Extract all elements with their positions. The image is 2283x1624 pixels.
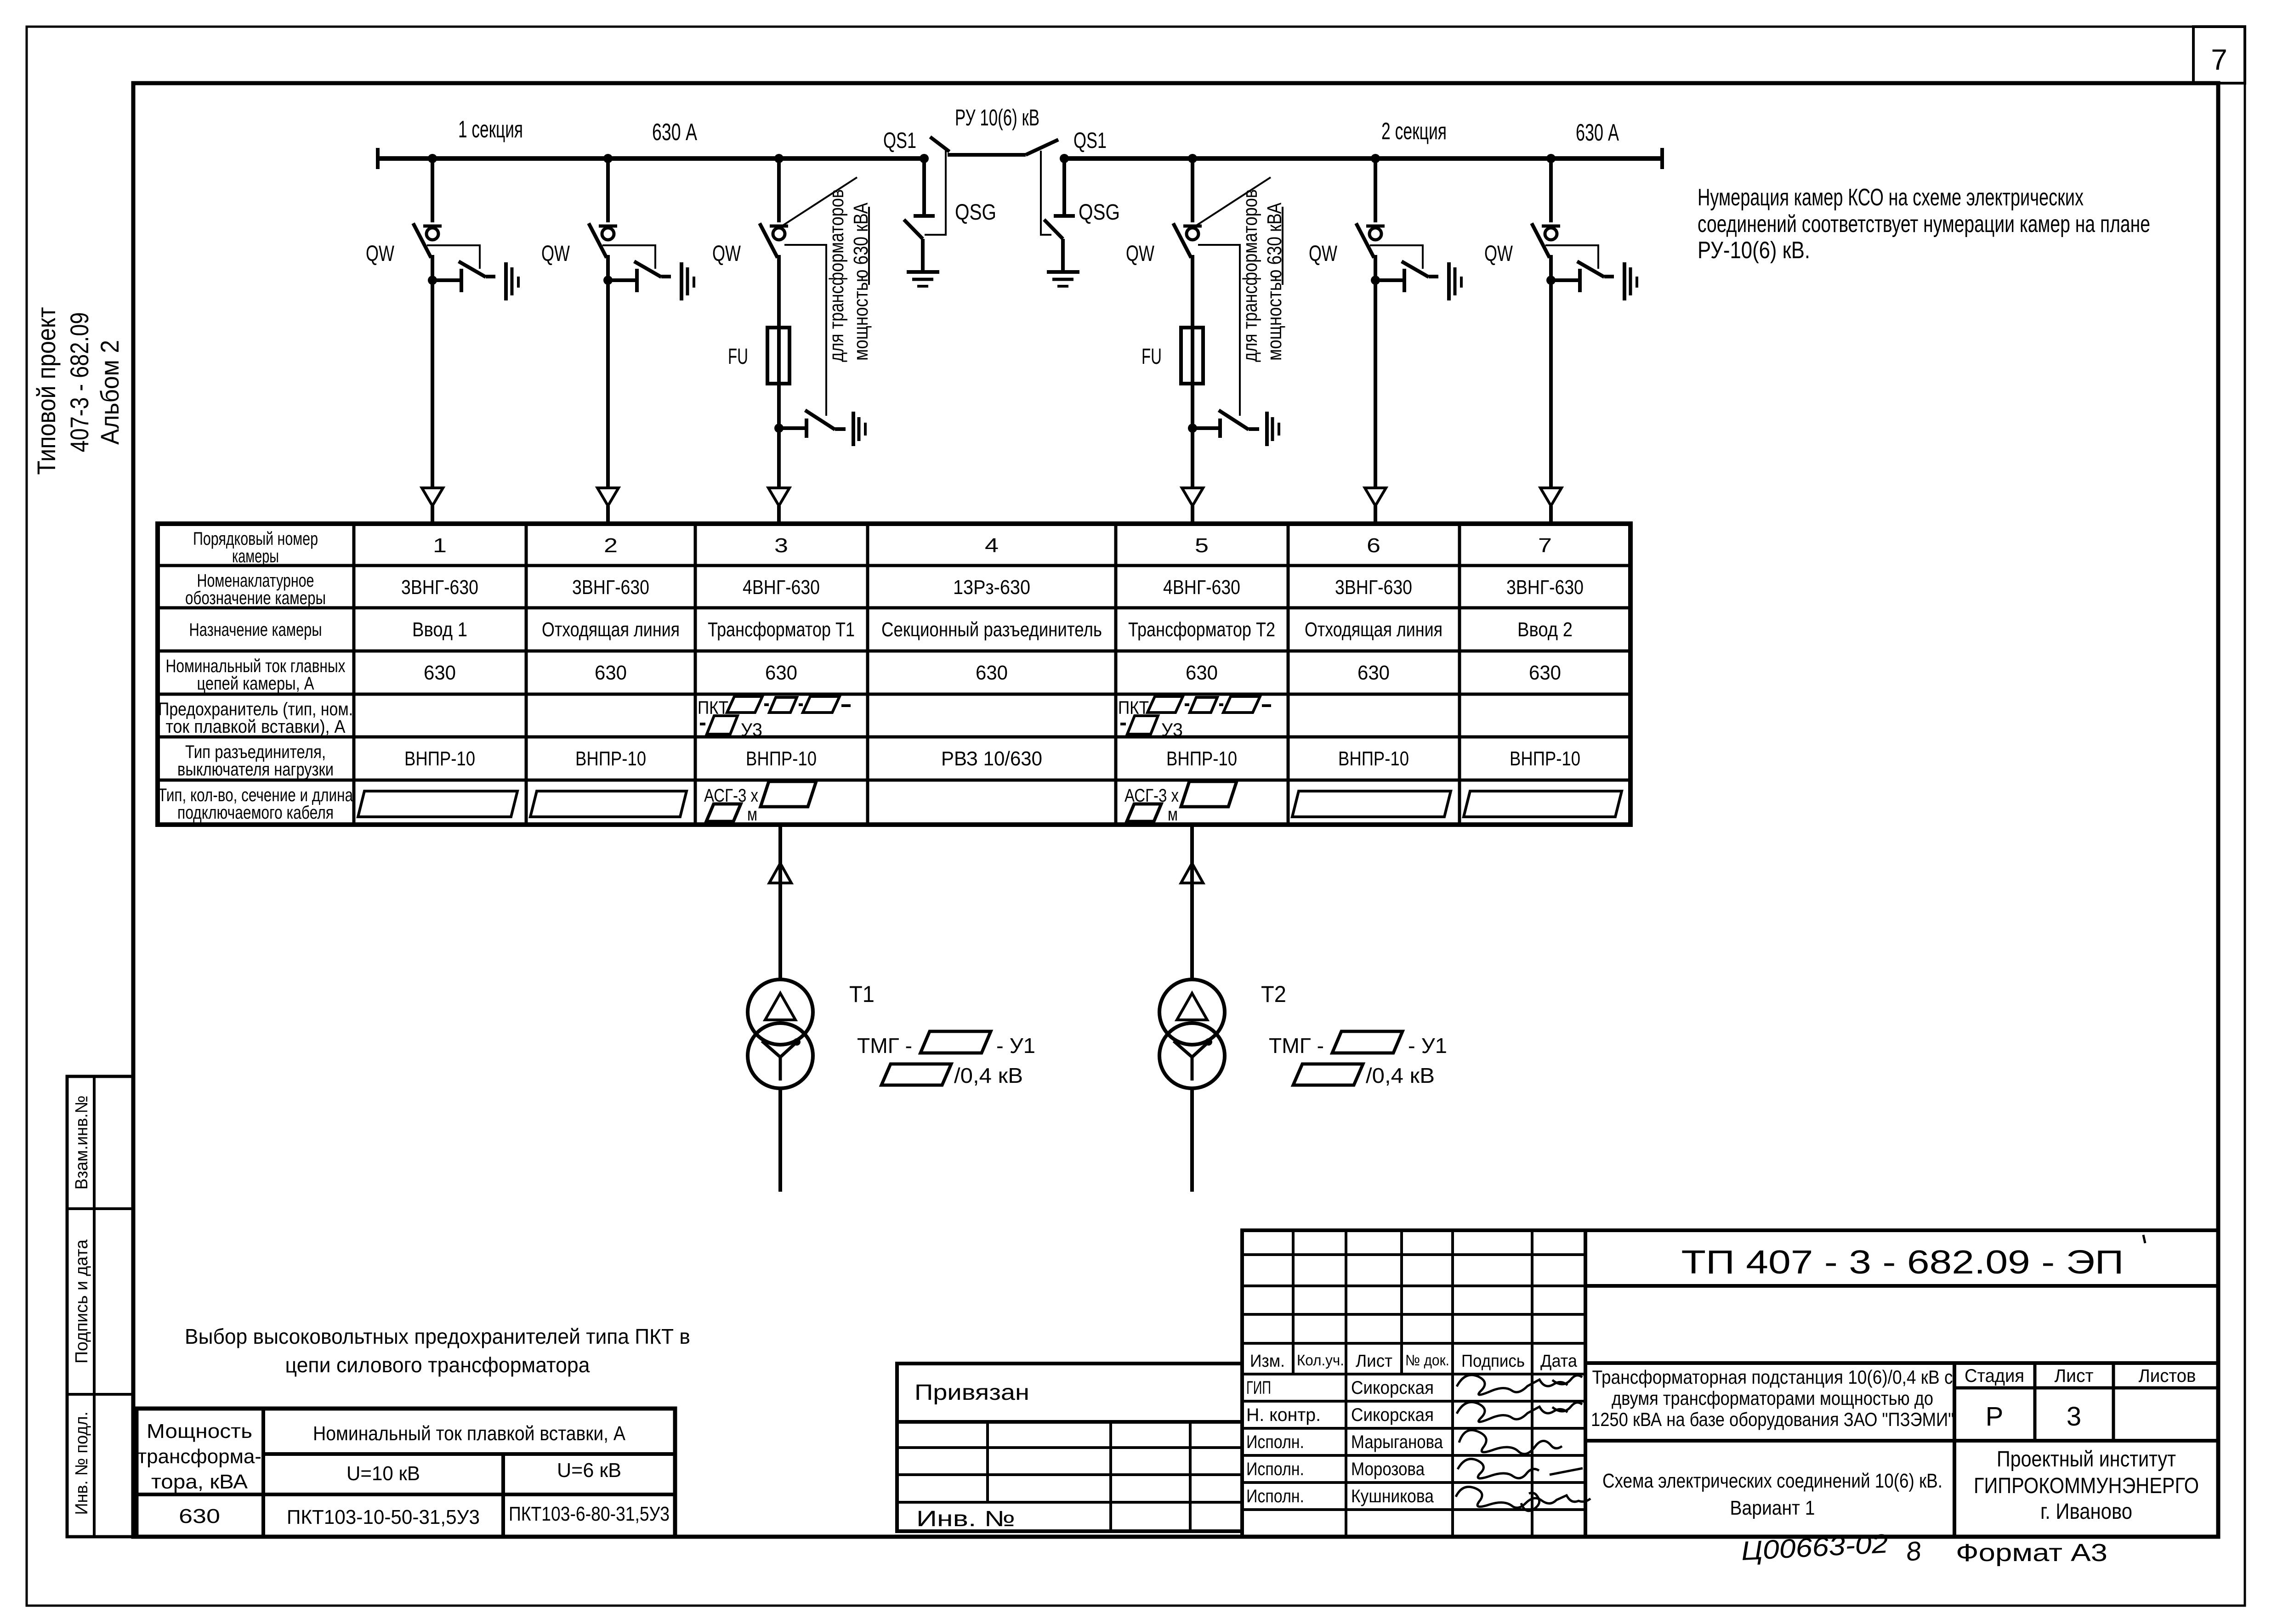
wire: feeder to cell 5 — [1191, 428, 1194, 488]
wire: feeder to cell 1 — [431, 280, 434, 488]
label QW (cell 3) — [712, 242, 741, 266]
svg-text:Марыганова: Марыганова — [1351, 1432, 1443, 1452]
svg-text:двумя трансформаторами мощност: двумя трансформаторами мощностью до — [1612, 1387, 1933, 1409]
label Т1 — [849, 981, 875, 1007]
svg-text:обозначение камеры: обозначение камеры — [185, 588, 326, 608]
earthing switch QSG (left) — [904, 158, 935, 270]
svg-text:13Рз-630: 13Рз-630 — [953, 576, 1030, 599]
svg-text:630: 630 — [1357, 662, 1390, 684]
svg-text:3ВНГ-630: 3ВНГ-630 — [1335, 576, 1412, 599]
svg-text:Секционный разъединитель: Секционный разъединитель — [881, 618, 1102, 641]
earthing switch (cell 3) — [779, 410, 846, 438]
wire: QW to lower node (cell 1) — [431, 255, 434, 280]
svg-text:1250 кВА на базе оборудования: 1250 кВА на базе оборудования ЗАО "ПЗЭМИ… — [1591, 1409, 1954, 1430]
svg-text:Инв. №: Инв. № — [916, 1507, 1015, 1531]
load-break switch QW (cell 7) — [1532, 223, 1560, 258]
earthing switch (cell 6) — [1375, 261, 1438, 292]
wire: busbar section 1 — [378, 148, 924, 169]
wire: feeder drop cell 6 — [1374, 158, 1377, 222]
svg-text:Т2: Т2 — [1261, 981, 1286, 1007]
svg-text:Трансформатор Т1: Трансформатор Т1 — [708, 618, 855, 641]
ground (cell 1) — [506, 262, 518, 300]
wire: feeder drop cell 3 — [777, 158, 781, 222]
wire: Т2 LV tail — [1190, 1088, 1194, 1192]
svg-text:3: 3 — [2067, 1402, 2081, 1432]
node: bus junction cell 5 — [1188, 154, 1197, 163]
svg-text:7: 7 — [1538, 534, 1552, 557]
node: bus junction cell 7 — [1546, 154, 1556, 163]
svg-text:Лист: Лист — [1356, 1352, 1392, 1371]
svg-text:Стадия: Стадия — [1965, 1366, 2024, 1386]
transformer Т1 — [748, 979, 813, 1088]
svg-text:Лист: Лист — [2055, 1366, 2094, 1386]
svg-text:м: м — [747, 804, 757, 825]
svg-text:630: 630 — [424, 662, 456, 684]
arrow to cell 5 — [1182, 488, 1203, 525]
transformer Т2 — [1159, 979, 1225, 1088]
node: bus junction cell 3 — [774, 154, 784, 163]
value label ТМГ-( )-У1 (Т1) — [857, 1031, 1035, 1058]
svg-text:ПКТ103-6-80-31,5У3: ПКТ103-6-80-31,5У3 — [509, 1503, 670, 1525]
svg-text:для трансформаторов: для трансформаторов — [825, 189, 848, 362]
svg-text:Типовой проект: Типовой проект — [32, 307, 61, 475]
svg-text:FU: FU — [1141, 345, 1162, 369]
svg-text:ТМГ -: ТМГ - — [857, 1034, 912, 1058]
svg-text:Подпись и дата: Подпись и дата — [72, 1239, 91, 1364]
cable fill-in box (cell 6) — [1292, 791, 1451, 817]
fuse type fill-in ПКТ (cell 5) — [1118, 696, 1271, 740]
label QW (cell 2) — [541, 242, 570, 266]
svg-text:ВНПР-10: ВНПР-10 — [1166, 747, 1237, 770]
svg-text:Кол.уч.: Кол.уч. — [1297, 1352, 1344, 1369]
cable fill-in АСГ-3 (cell 3) — [704, 781, 816, 825]
arrow to cell 6 — [1365, 488, 1386, 525]
ground (cell 2) — [681, 262, 694, 300]
node: bus junction cell 6 — [1371, 154, 1380, 163]
wire: feeder to cell 2 — [606, 280, 610, 488]
svg-text:7: 7 — [2211, 43, 2227, 76]
wire: cell to transformer Т2 — [1190, 825, 1194, 979]
svg-text:ВНПР-10: ВНПР-10 — [1338, 747, 1409, 770]
svg-text:У3: У3 — [1161, 720, 1183, 740]
label QS1 (left) — [883, 129, 916, 153]
svg-text:Проектный институт: Проектный институт — [1997, 1447, 2176, 1471]
cable fill-in АСГ-3 (cell 5) — [1124, 781, 1237, 825]
wire: QW to fuse (cell 5) — [1191, 255, 1194, 328]
svg-text:3: 3 — [774, 534, 788, 557]
svg-text:/0,4 кВ: /0,4 кВ — [954, 1064, 1023, 1087]
node: QS1 right junction — [1060, 154, 1069, 163]
svg-text:ВНПР-10: ВНПР-10 — [404, 747, 475, 770]
svg-text:4ВНГ-630: 4ВНГ-630 — [1163, 576, 1240, 599]
load-break switch QW (cell 2) — [589, 223, 617, 258]
arrow from cell to Т1 — [769, 863, 791, 883]
svg-text:- У1: - У1 — [996, 1034, 1035, 1058]
ground (cell 3) — [853, 412, 865, 446]
svg-text:Вариант 1: Вариант 1 — [1730, 1497, 1815, 1519]
svg-text:4: 4 — [985, 534, 999, 557]
label FU (cell 5) — [1141, 345, 1162, 369]
svg-text:Номинальный ток плавкой вставк: Номинальный ток плавкой вставки, А — [313, 1422, 626, 1445]
arrow to cell 7 — [1540, 488, 1562, 525]
svg-text:Н. контр.: Н. контр. — [1246, 1405, 1321, 1425]
svg-text:РУ 10(6) кВ: РУ 10(6) кВ — [955, 105, 1039, 130]
svg-text:FU: FU — [728, 345, 748, 369]
svg-text:Отходящая линия: Отходящая линия — [1305, 618, 1442, 641]
linkage QW-earthing switch (cell 3) — [784, 245, 826, 416]
svg-text:ГИП: ГИП — [1246, 1378, 1271, 1398]
svg-text:/0,4 кВ: /0,4 кВ — [1366, 1064, 1435, 1087]
svg-text:Т1: Т1 — [849, 981, 875, 1007]
svg-text:Мощность: Мощность — [147, 1420, 252, 1443]
load-break switch QW (cell 6) — [1356, 223, 1385, 258]
svg-text:Трансформаторная подстанция 10: Трансформаторная подстанция 10(6)/0,4 кВ… — [1592, 1366, 1953, 1388]
node: lower junction (cell 3) — [774, 424, 784, 433]
svg-text:ток плавкой вставки), А: ток плавкой вставки), А — [166, 717, 346, 737]
node: lower junction (cell 5) — [1188, 424, 1197, 433]
arrow from cell to Т2 — [1181, 863, 1203, 883]
node: lower junction (cell 2) — [603, 276, 613, 285]
ground (cell 5) — [1267, 412, 1279, 446]
value label ТМГ-( )-У1 (Т2) — [1269, 1031, 1447, 1058]
linkage QS1-QSG (right) — [1041, 151, 1051, 235]
arrow to cell 3 — [768, 488, 789, 525]
svg-text:цепи силового трансформатора: цепи силового трансформатора — [285, 1353, 590, 1377]
arrow to cell 2 — [597, 488, 619, 525]
svg-text:Исполн.: Исполн. — [1246, 1486, 1304, 1506]
linkage QW-earthing switch (cell 6) — [1370, 245, 1423, 269]
svg-text:ГИПРОКОММУНЭНЕРГО: ГИПРОКОММУНЭНЕРГО — [1974, 1474, 2199, 1498]
load-break switch QW (cell 1) — [413, 223, 442, 258]
svg-text:3ВНГ-630: 3ВНГ-630 — [1506, 576, 1584, 599]
wire: QW to lower node (cell 7) — [1549, 255, 1553, 280]
svg-text:Изм.: Изм. — [1250, 1352, 1285, 1371]
svg-text:Выбор высоковольтных предохр: Выбор высоковольтных предохранителей тип… — [185, 1324, 690, 1348]
svg-text:Листов: Листов — [2139, 1366, 2196, 1386]
svg-text:Ввод 1: Ввод 1 — [412, 618, 467, 641]
svg-text:У3: У3 — [741, 720, 762, 740]
svg-text:подключаемого кабеля: подключаемого кабеля — [177, 803, 334, 823]
wire: feeder drop cell 1 — [431, 158, 434, 222]
wire: feeder drop cell 5 — [1191, 158, 1194, 222]
svg-text:ТП 407 - 3 - 682.09 - ЭП: ТП 407 - 3 - 682.09 - ЭП — [1681, 1244, 2124, 1281]
svg-text:3ВНГ-630: 3ВНГ-630 — [572, 576, 649, 599]
ground (cell 7) — [1624, 262, 1637, 300]
label Т2 — [1261, 981, 1286, 1007]
svg-text:м: м — [1168, 804, 1178, 825]
svg-text:407-3 - 682.09: 407-3 - 682.09 — [65, 312, 94, 453]
wire: busbar section 2 — [1064, 148, 1662, 169]
svg-text:QW: QW — [1126, 242, 1155, 266]
wire: feeder to cell 3 — [777, 428, 781, 488]
earthing switch (cell 7) — [1551, 261, 1614, 292]
svg-text:6: 6 — [1367, 534, 1380, 557]
fuse FU (cell 3) — [767, 328, 789, 384]
svg-text:630: 630 — [976, 662, 1008, 684]
svg-text:630: 630 — [595, 662, 627, 684]
svg-text:Схема электрических соединений: Схема электрических соединений 10(6) кВ. — [1602, 1470, 1942, 1492]
svg-text:1: 1 — [433, 534, 447, 557]
svg-text:Сикорская: Сикорская — [1351, 1378, 1434, 1398]
label "1 секция" — [458, 116, 523, 143]
svg-text:Подпись: Подпись — [1461, 1352, 1525, 1371]
wire: QW to lower node (cell 2) — [606, 255, 610, 280]
svg-text:Кушникова: Кушникова — [1351, 1486, 1434, 1506]
load-break switch QW (cell 5) — [1173, 223, 1202, 258]
svg-text:Сикорская: Сикорская — [1351, 1405, 1434, 1425]
svg-text:4ВНГ-630: 4ВНГ-630 — [743, 576, 820, 599]
svg-text:ВНПР-10: ВНПР-10 — [746, 747, 817, 770]
node: lower junction (cell 6) — [1371, 276, 1380, 285]
annotation "для трансформаторов мощностью 630 кВА" (cell 3) — [825, 189, 872, 362]
svg-text:для трансформаторов: для трансформаторов — [1239, 189, 1261, 362]
svg-text:Взам.инв.№: Взам.инв.№ — [72, 1096, 91, 1190]
svg-text:QSG: QSG — [955, 200, 996, 225]
label QW (cell 1) — [366, 242, 395, 266]
svg-text:U=10 кВ: U=10 кВ — [346, 1462, 420, 1485]
label QS1 (right) — [1073, 129, 1107, 153]
value label ( )/0,4 кВ (Т1) — [881, 1064, 1023, 1087]
svg-text:Нумерация камер КСО на схеме э: Нумерация камер КСО на схеме электрическ… — [1698, 184, 2084, 211]
disconnector QS1 (right blade) — [1026, 140, 1058, 155]
svg-text:ВНПР-10: ВНПР-10 — [1510, 747, 1580, 770]
ground (QSG right) — [1047, 272, 1079, 286]
svg-text:Инв. № подл.: Инв. № подл. — [72, 1412, 91, 1515]
svg-text:ВНПР-10: ВНПР-10 — [575, 747, 646, 770]
svg-text:Альбом 2: Альбом 2 — [95, 340, 124, 445]
svg-text:тора, кВА: тора, кВА — [151, 1471, 248, 1493]
label QW (cell 5) — [1126, 242, 1155, 266]
svg-text:1 секция: 1 секция — [458, 116, 523, 143]
wire: cell to transformer Т1 — [778, 825, 782, 979]
svg-text:QS1: QS1 — [1073, 129, 1107, 153]
svg-text:8: 8 — [1905, 1536, 1923, 1567]
wire: QW to lower node (cell 6) — [1374, 255, 1377, 280]
svg-text:2 секция: 2 секция — [1381, 118, 1447, 145]
linkage QW-earthing switch (cell 1) — [427, 245, 480, 269]
fuse type fill-in ПКТ (cell 3) — [698, 696, 851, 740]
svg-text:г. Иваново: г. Иваново — [2040, 1500, 2132, 1524]
svg-text:QW: QW — [541, 242, 570, 266]
earthing switch (cell 1) — [432, 261, 495, 292]
wire: feeder drop cell 7 — [1549, 158, 1553, 222]
label QSG (left) — [955, 200, 996, 225]
svg-text:QW: QW — [1484, 242, 1513, 266]
wire: fuse to lower node (cell 5) — [1191, 384, 1194, 428]
svg-text:5: 5 — [1195, 534, 1209, 557]
node: bus junction cell 1 — [428, 154, 437, 163]
wire: feeder to cell 6 — [1374, 280, 1377, 488]
svg-text:QW: QW — [366, 242, 395, 266]
svg-text:U=6 кВ: U=6 кВ — [557, 1459, 621, 1482]
linkage QW-earthing switch (cell 7) — [1545, 245, 1598, 269]
node: QS1 left junction — [920, 154, 929, 163]
svg-text:камеры: камеры — [232, 546, 279, 566]
label "2 секция" — [1381, 118, 1447, 145]
cable fill-in box (cell 7) — [1464, 791, 1622, 817]
svg-text:РВЗ 10/630: РВЗ 10/630 — [941, 747, 1042, 770]
arrow to cell 1 — [422, 488, 443, 525]
svg-text:Исполн.: Исполн. — [1246, 1459, 1304, 1479]
wire: fuse to lower node (cell 3) — [777, 384, 781, 428]
svg-text:2: 2 — [604, 534, 618, 557]
annotation leader (cell 3) — [783, 177, 857, 226]
wire: Т1 LV tail — [778, 1088, 782, 1192]
svg-text:цепей камеры, А: цепей камеры, А — [197, 673, 314, 694]
svg-text:Исполн.: Исполн. — [1246, 1432, 1304, 1452]
node: lower junction (cell 7) — [1546, 276, 1556, 285]
svg-text:Морозова: Морозова — [1351, 1459, 1425, 1479]
svg-text:Дата: Дата — [1540, 1352, 1578, 1371]
node: bus junction cell 2 — [603, 154, 613, 163]
node: lower junction (cell 1) — [428, 276, 437, 285]
fuse FU (cell 5) — [1181, 328, 1203, 384]
svg-text:630: 630 — [1186, 662, 1218, 684]
label "РУ 10(6) кВ" — [955, 105, 1039, 130]
disconnector QS1 (left blade) — [930, 137, 1026, 155]
svg-text:Назначение камеры: Назначение камеры — [189, 620, 322, 640]
annotation leader (cell 5) — [1196, 177, 1271, 226]
load-break switch QW (cell 3) — [760, 223, 788, 258]
svg-text:QSG: QSG — [1079, 200, 1120, 225]
svg-text:Трансформатор Т2: Трансформатор Т2 — [1128, 618, 1275, 641]
earthing switch (cell 5) — [1193, 410, 1259, 438]
cable fill-in box (cell 2) — [530, 791, 687, 817]
svg-text:ПКТ103-10-50-31,5У3: ПКТ103-10-50-31,5У3 — [287, 1506, 480, 1528]
label QW (cell 6) — [1309, 242, 1338, 266]
label FU (cell 3) — [728, 345, 748, 369]
svg-text:№ док.: № док. — [1405, 1352, 1449, 1369]
svg-text:соединений соответствует нумер: соединений соответствует нумерации камер… — [1698, 211, 2150, 238]
svg-text:QW: QW — [712, 242, 741, 266]
ground (QSG left) — [907, 272, 939, 286]
label QW (cell 7) — [1484, 242, 1513, 266]
svg-text:Ввод 2: Ввод 2 — [1517, 618, 1573, 641]
svg-text:630: 630 — [765, 662, 797, 684]
wire: QW to fuse (cell 3) — [777, 255, 781, 328]
svg-text:Отходящая линия: Отходящая линия — [542, 618, 680, 641]
svg-text:Формат А3: Формат А3 — [1956, 1539, 2107, 1567]
wire: feeder drop cell 2 — [606, 158, 610, 222]
svg-text:630 А: 630 А — [652, 119, 697, 146]
svg-text:630: 630 — [1529, 662, 1561, 684]
svg-text:Р: Р — [1986, 1402, 2004, 1432]
cable fill-in box (cell 1) — [358, 791, 517, 817]
linkage QW-earthing switch (cell 2) — [602, 245, 655, 269]
svg-text:РУ-10(6) кВ.: РУ-10(6) кВ. — [1698, 237, 1810, 264]
annotation "для трансформаторов мощностью 630 кВА" (cell 5) — [1239, 189, 1286, 362]
earthing switch QSG (right) — [1044, 158, 1075, 270]
label "630 А" (section 1) — [652, 119, 697, 146]
svg-text:Привязан: Привязан — [914, 1381, 1029, 1405]
wire: feeder to cell 7 — [1549, 280, 1553, 488]
linkage QS1-QSG (left) — [925, 150, 946, 235]
value label ( )/0,4 кВ (Т2) — [1293, 1064, 1435, 1087]
svg-text:ТМГ -: ТМГ - — [1269, 1034, 1324, 1058]
ground (cell 6) — [1449, 262, 1461, 300]
label QSG (right) — [1079, 200, 1120, 225]
svg-text:QW: QW — [1309, 242, 1338, 266]
earthing switch (cell 2) — [608, 261, 671, 292]
svg-text:- У1: - У1 — [1408, 1034, 1447, 1058]
svg-text:630: 630 — [179, 1505, 220, 1528]
svg-text:трансформа-: трансформа- — [137, 1445, 261, 1468]
svg-text:QS1: QS1 — [883, 129, 916, 153]
svg-text:630 А: 630 А — [1576, 119, 1619, 146]
linkage QW-earthing switch (cell 5) — [1198, 245, 1240, 416]
label "630 А" (section 2) — [1576, 119, 1619, 146]
svg-text:3ВНГ-630: 3ВНГ-630 — [401, 576, 478, 599]
svg-text:выключателя нагрузки: выключателя нагрузки — [177, 759, 334, 780]
